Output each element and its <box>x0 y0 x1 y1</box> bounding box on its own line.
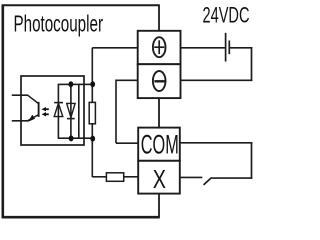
svg-text:Photocoupler: Photocoupler <box>14 11 104 37</box>
svg-text:X: X <box>153 164 166 194</box>
svg-text:24VDC: 24VDC <box>203 2 250 27</box>
svg-text:COM: COM <box>141 130 179 160</box>
